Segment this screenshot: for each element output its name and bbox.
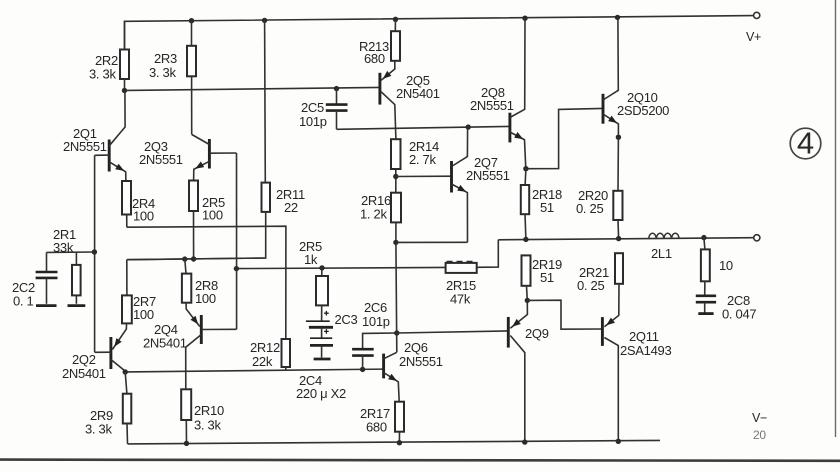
svg-text:2Q11: 2Q11: [629, 329, 659, 344]
svg-text:47k: 47k: [450, 292, 471, 307]
svg-text:2Q9: 2Q9: [525, 326, 549, 341]
node dot feedback/base divider: [234, 266, 239, 271]
resistor 2R7: [126, 260, 128, 296]
transistor 2Q5: [378, 73, 381, 105]
inductor 2L1: [649, 233, 679, 238]
resistor 2R8: [185, 259, 186, 274]
ground bar 2C2: [36, 304, 57, 307]
svg-text:3. 3k: 3. 3k: [85, 422, 112, 437]
node dot top rail / R213: [393, 17, 398, 22]
resistor 2R10: [181, 389, 191, 420]
capacitor 2C2: [46, 252, 48, 271]
node dot top rail / 2R3: [189, 18, 194, 23]
svg-text:22k: 22k: [252, 354, 273, 369]
bottom scan line: [0, 460, 840, 461]
svg-text:V+: V+: [746, 30, 761, 44]
transistor 2Q4: [200, 315, 203, 344]
wire input line (2Q1 base to 2Q2 base): [94, 155, 96, 352]
resistor 2R4: [122, 181, 131, 215]
svg-text:2SA1493: 2SA1493: [620, 343, 671, 358]
svg-text:2R12: 2R12: [250, 340, 280, 355]
node dot V- rail 2Q11: [616, 439, 621, 444]
svg-text:100: 100: [202, 208, 223, 223]
svg-text:2C6: 2C6: [364, 300, 387, 315]
svg-text:2N5401: 2N5401: [62, 366, 106, 381]
resistor 2R14: [391, 139, 401, 169]
svg-text:33k: 33k: [53, 240, 74, 255]
node dot input tap 2R1/2C2: [92, 249, 97, 254]
wire base line y=89 (2R2 bottom to 2Q5 base): [125, 87, 380, 90]
node dot 2R14/2R16/2Q7-base: [393, 174, 398, 179]
transistor 2Q11: [601, 317, 604, 346]
wire V- rail: [128, 440, 661, 444]
terminal output: [754, 235, 760, 241]
wire 2Q8 emitter to 2Q10 base: [526, 108, 603, 168]
resistor 2R5 (1k): [321, 268, 323, 276]
svg-text:2C5: 2C5: [301, 100, 324, 115]
capacitor 2C4 electrolytic: [324, 329, 329, 334]
svg-text:2Q6: 2Q6: [404, 340, 428, 355]
resistor 2R5 (100): [189, 181, 198, 212]
wire 2Q2 collector line to 2Q6 base: [125, 369, 383, 372]
node dot 2C6 top / 2Q9 base node: [394, 330, 399, 335]
node dot zobel tap on output line: [701, 235, 706, 240]
wire 2C5 bottom to 2Q8 base: [337, 126, 510, 129]
svg-text:2SD5200: 2SD5200: [617, 103, 669, 118]
svg-text:V−: V−: [752, 411, 767, 425]
node dot 2Q7 collector junction: [466, 124, 471, 129]
capacitor 2C8: [704, 281, 706, 295]
node dot V- rail 2R17: [397, 440, 402, 445]
terminal V+: [754, 12, 760, 18]
resistor 2R17: [395, 402, 404, 432]
capacitor 2C5: [336, 89, 338, 105]
svg-text:0. 25: 0. 25: [576, 201, 603, 216]
node dot 2R20/2R21 on output line: [616, 236, 621, 241]
wire feedback line: [236, 267, 445, 268]
svg-text:2R10: 2R10: [194, 403, 224, 418]
transistor 2Q9: [507, 317, 510, 348]
resistor 2R16: [391, 193, 401, 223]
transistor 2Q10: [602, 94, 605, 124]
node dot 2R18/2R19 on output line: [523, 237, 528, 242]
resistor 2R3: [191, 21, 193, 46]
svg-text:1. 2k: 1. 2k: [360, 207, 387, 222]
wire 2Q9 base line: [397, 331, 509, 333]
wire 2Q7 base: [396, 175, 452, 177]
figure number circle 4: [790, 128, 821, 159]
svg-text:2C3: 2C3: [335, 312, 358, 327]
wire 2R15 to output line: [477, 240, 499, 267]
resistor 2R21: [615, 253, 623, 284]
transistor 2Q2: [109, 337, 112, 369]
resistor 2R18: [524, 169, 527, 185]
resistor 2R15: [446, 263, 477, 273]
svg-text:0. 25: 0. 25: [577, 278, 604, 293]
resistor 2R20: [613, 191, 622, 220]
node dot V- rail 2R10: [184, 441, 189, 446]
ground bar 2C8: [698, 312, 713, 315]
resistor 2R12: [282, 339, 291, 367]
resistor 2R19: [522, 255, 531, 285]
wire 2Q10 emitter to 2R20: [617, 137, 619, 191]
svg-text:2N5551: 2N5551: [466, 168, 510, 183]
svg-text:4: 4: [797, 126, 814, 161]
wire bias chain down to 2Q6 collector: [395, 242, 398, 352]
transistor 2Q3: [208, 139, 211, 169]
svg-text:101p: 101p: [299, 114, 327, 129]
resistor 2R1: [75, 252, 77, 265]
node dot 2Q8 emitter / 2R18: [523, 166, 528, 171]
transistor 2Q6: [382, 354, 385, 379]
svg-text:2N5551: 2N5551: [63, 139, 107, 154]
svg-text:2. 7k: 2. 7k: [409, 152, 436, 167]
svg-text:2N5551: 2N5551: [470, 98, 514, 113]
svg-text:22: 22: [284, 200, 298, 215]
svg-text:1k: 1k: [304, 252, 318, 267]
svg-text:0. 047: 0. 047: [722, 307, 756, 322]
transistor 2Q8: [508, 113, 511, 143]
svg-text:2N5551: 2N5551: [139, 152, 183, 167]
node dot 2R5-1k tap: [319, 265, 324, 270]
transistor 2Q7: [450, 161, 453, 193]
node dot 2Q10 emitter: [616, 135, 621, 140]
node dot V- rail 2Q9: [522, 439, 527, 444]
node dot 2C6 bottom tap: [360, 367, 365, 372]
resistor 2R9: [125, 372, 127, 394]
svg-text:3. 3k: 3. 3k: [89, 67, 116, 82]
resistor R213: [394, 19, 396, 31]
svg-text:0. 1: 0. 1: [13, 294, 34, 309]
resistor 10 (zobel): [704, 238, 705, 250]
wire line A (2R4 bottom to 2R12): [127, 226, 286, 339]
wire 2Q9 emitter node to 2Q11 base: [527, 300, 602, 329]
wire 2R11 branch from top rail: [264, 20, 267, 182]
wire 2Q7 emitter return: [396, 241, 468, 243]
wire main output line: [498, 238, 753, 240]
svg-text:100: 100: [133, 307, 154, 322]
svg-text:2N5401: 2N5401: [143, 336, 187, 351]
svg-text:2L1: 2L1: [651, 246, 672, 261]
capacitor 2C3 electrolytic: [321, 305, 323, 321]
resistor 2R2: [124, 21, 126, 49]
svg-text:2Q2: 2Q2: [72, 352, 96, 367]
capacitor 2C6: [363, 333, 397, 349]
node dot top rail / 2Q10 collector: [615, 15, 620, 20]
svg-text:2R3: 2R3: [154, 51, 177, 66]
node dot 2R5 tap on line B: [191, 256, 196, 261]
resistor 2R11: [262, 183, 271, 212]
node dot 2R2 bottom: [122, 88, 127, 93]
svg-text:100: 100: [195, 291, 216, 306]
node dot 2R16 bottom: [393, 240, 398, 245]
node dot top rail / 2Q8 collector: [522, 16, 527, 21]
transistor 2Q1: [108, 140, 111, 172]
svg-text:51: 51: [540, 270, 554, 285]
svg-text:51: 51: [540, 200, 554, 215]
svg-text:20: 20: [753, 428, 766, 442]
svg-text:680: 680: [366, 420, 387, 435]
svg-text:2N5401: 2N5401: [396, 86, 440, 101]
svg-text:100: 100: [133, 209, 154, 224]
svg-text:101p: 101p: [362, 314, 390, 329]
ground bar 2C4: [314, 358, 331, 361]
wire base divider vertical (2Q3/2Q4 bases): [236, 153, 238, 329]
svg-text:2N5551: 2N5551: [399, 354, 443, 369]
svg-text:10: 10: [719, 258, 733, 273]
ground bar 2R1: [68, 304, 86, 307]
svg-text:220 μ X2: 220 μ X2: [296, 386, 346, 401]
node dot 2C5 top tap: [334, 86, 339, 91]
node dot 2Q9 emitter / 2R19 bottom: [525, 298, 530, 303]
svg-text:3. 3k: 3. 3k: [194, 418, 221, 433]
svg-text:3. 3k: 3. 3k: [149, 65, 176, 80]
wire top V+ rail: [125, 16, 754, 50]
svg-text:680: 680: [364, 51, 385, 66]
right page edge line: [835, 0, 837, 437]
node dot top rail / 2R11 branch: [262, 18, 267, 23]
wire line B (2R7 corner to 2R11): [127, 258, 266, 260]
wire tap to 2R1/2C2: [47, 251, 95, 253]
node dot 2R8 tap on line B: [182, 256, 187, 261]
node dot 2Q2 collector node: [123, 369, 128, 374]
